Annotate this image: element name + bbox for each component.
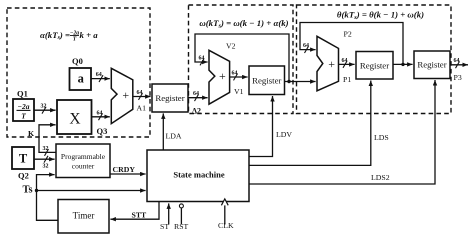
svg-text:X: X [69,110,80,127]
adder U3 (theta stage) [317,36,339,91]
svg-text:Q1: Q1 [17,89,28,99]
svg-text:Register: Register [155,93,184,103]
wire: Ts to state machine [23,185,146,196]
svg-text:64: 64 [97,110,103,116]
wire: timer tick to counter and Ts to state machine [35,175,58,221]
svg-text:Register: Register [360,60,389,70]
svg-text:Δ2: Δ2 [192,107,201,116]
dashed box: alpha stage [7,8,150,137]
svg-text:V2: V2 [226,42,236,51]
svg-text:LDA: LDA [166,131,182,140]
adder U2 (omega stage) [209,50,230,104]
register Q1 (constant -2a/T) [13,89,34,122]
register REG4 (theta 2nd) [414,51,450,79]
svg-text:K: K [28,129,34,138]
wire: LDV state machine to REG2 load [249,96,292,157]
wire: P2 feedback REG3 out to adder U3 (64) [300,23,405,67]
state machine [147,150,249,202]
register REG1 (alpha) [152,84,188,112]
wire: REG4 output P3 (64) [450,58,468,82]
svg-text:64: 64 [232,70,238,76]
svg-text:+: + [328,57,335,71]
svg-text:T: T [73,37,77,43]
svg-text:A1: A1 [137,104,147,113]
svg-text:Q3: Q3 [97,126,108,136]
wire: CRDY counter to state machine [110,165,146,174]
register REG3 (theta 1st) [356,52,393,80]
wire: CLK input with clock wedge [218,199,234,230]
svg-text:V1: V1 [234,87,244,96]
programmable counter [56,144,110,178]
svg-text:Timer: Timer [73,211,95,221]
svg-text:counter: counter [72,162,95,171]
svg-text:Register: Register [417,60,446,70]
svg-text:θ(kTs) = θ(k − 1) + ω(k): θ(kTs) = θ(k − 1) + ω(k) [337,10,424,22]
svg-text:LDV: LDV [276,130,292,139]
svg-text:P3: P3 [454,73,462,82]
multiplier X (Q3) [57,100,107,136]
wire: Q0 a to adder U1 (64) [91,72,110,82]
wire: adder U3 to REG3, node P1 (64) [339,58,355,84]
svg-text:a: a [78,72,85,86]
formula alpha(kTs) = (-2a/T)k + a [40,30,98,43]
register REG2 (omega) [249,66,285,95]
svg-text:+: + [219,69,226,83]
svg-text:T: T [21,112,26,121]
wire: adder U2 to REG2, node V1 (64) [230,70,248,96]
svg-text:LDS2: LDS2 [371,173,390,182]
wire: V2 feedback REG2 out to adder U2 (64) [195,34,291,83]
wire: RST input (active-low bubble) [174,204,189,231]
svg-text:Ts: Ts [23,185,33,196]
svg-text:32: 32 [43,163,49,169]
svg-text:k + a: k + a [80,30,99,40]
wire: REG2 to adder U3 [285,81,316,83]
svg-text:64: 64 [454,58,460,64]
svg-text:ω(kTs) = ω(k − 1) + α(k): ω(kTs) = ω(k − 1) + α(k) [199,18,288,30]
svg-text:P2: P2 [344,30,352,39]
wire: ST input to state machine [160,203,169,231]
register Q0 (constant a) [70,56,92,90]
svg-text:64: 64 [342,58,348,64]
timer [58,200,109,234]
svg-text:64: 64 [193,91,199,97]
svg-text:CRDY: CRDY [113,165,136,174]
wire: LDS2 state machine to REG4 load [249,80,435,184]
wire: REG3 to REG4 [393,63,413,65]
wire: adder U1 to REG1, node A1 (64) [133,90,151,113]
svg-text:64: 64 [199,55,205,61]
svg-text:64: 64 [137,90,143,96]
wire: Q2 T to counter (32) [34,156,55,170]
dashed box: omega stage [189,5,294,114]
svg-text:64: 64 [303,43,309,49]
svg-text:+: + [122,88,129,102]
svg-text:RST: RST [174,222,189,231]
svg-text:32: 32 [43,146,49,152]
dashed box: theta stage [297,5,452,114]
svg-text:−2a: −2a [17,102,29,111]
svg-text:P1: P1 [343,75,351,84]
svg-text:α(kTs) =: α(kTs) = [40,30,70,41]
svg-text:ST: ST [160,222,169,231]
wire: counter K output to X (32) [28,125,56,156]
wire: STT state machine to timer [110,202,159,220]
svg-text:32: 32 [41,104,47,110]
svg-text:State machine: State machine [173,170,224,180]
register Q2 (constant T) [12,147,34,181]
wire: LDS state machine to REG3 load [249,81,389,166]
svg-text:Register: Register [252,75,281,85]
svg-text:T: T [19,152,28,166]
svg-text:CLK: CLK [218,221,234,230]
adder U1 (alpha stage) [111,68,133,123]
wire: LDA state machine to REG1 load [163,113,182,150]
svg-text:LDS: LDS [374,133,389,142]
wire: X to adder U1 (64) [92,110,110,120]
svg-text:Q0: Q0 [72,56,83,66]
svg-text:64: 64 [96,72,102,78]
wire: Q1 to X (32) [34,104,56,114]
wire: REG1 to adder U2, node Delta2 (64) [188,91,208,115]
svg-text:STT: STT [132,211,148,220]
svg-text:Programmable: Programmable [61,152,106,161]
svg-text:Q2: Q2 [18,171,29,181]
